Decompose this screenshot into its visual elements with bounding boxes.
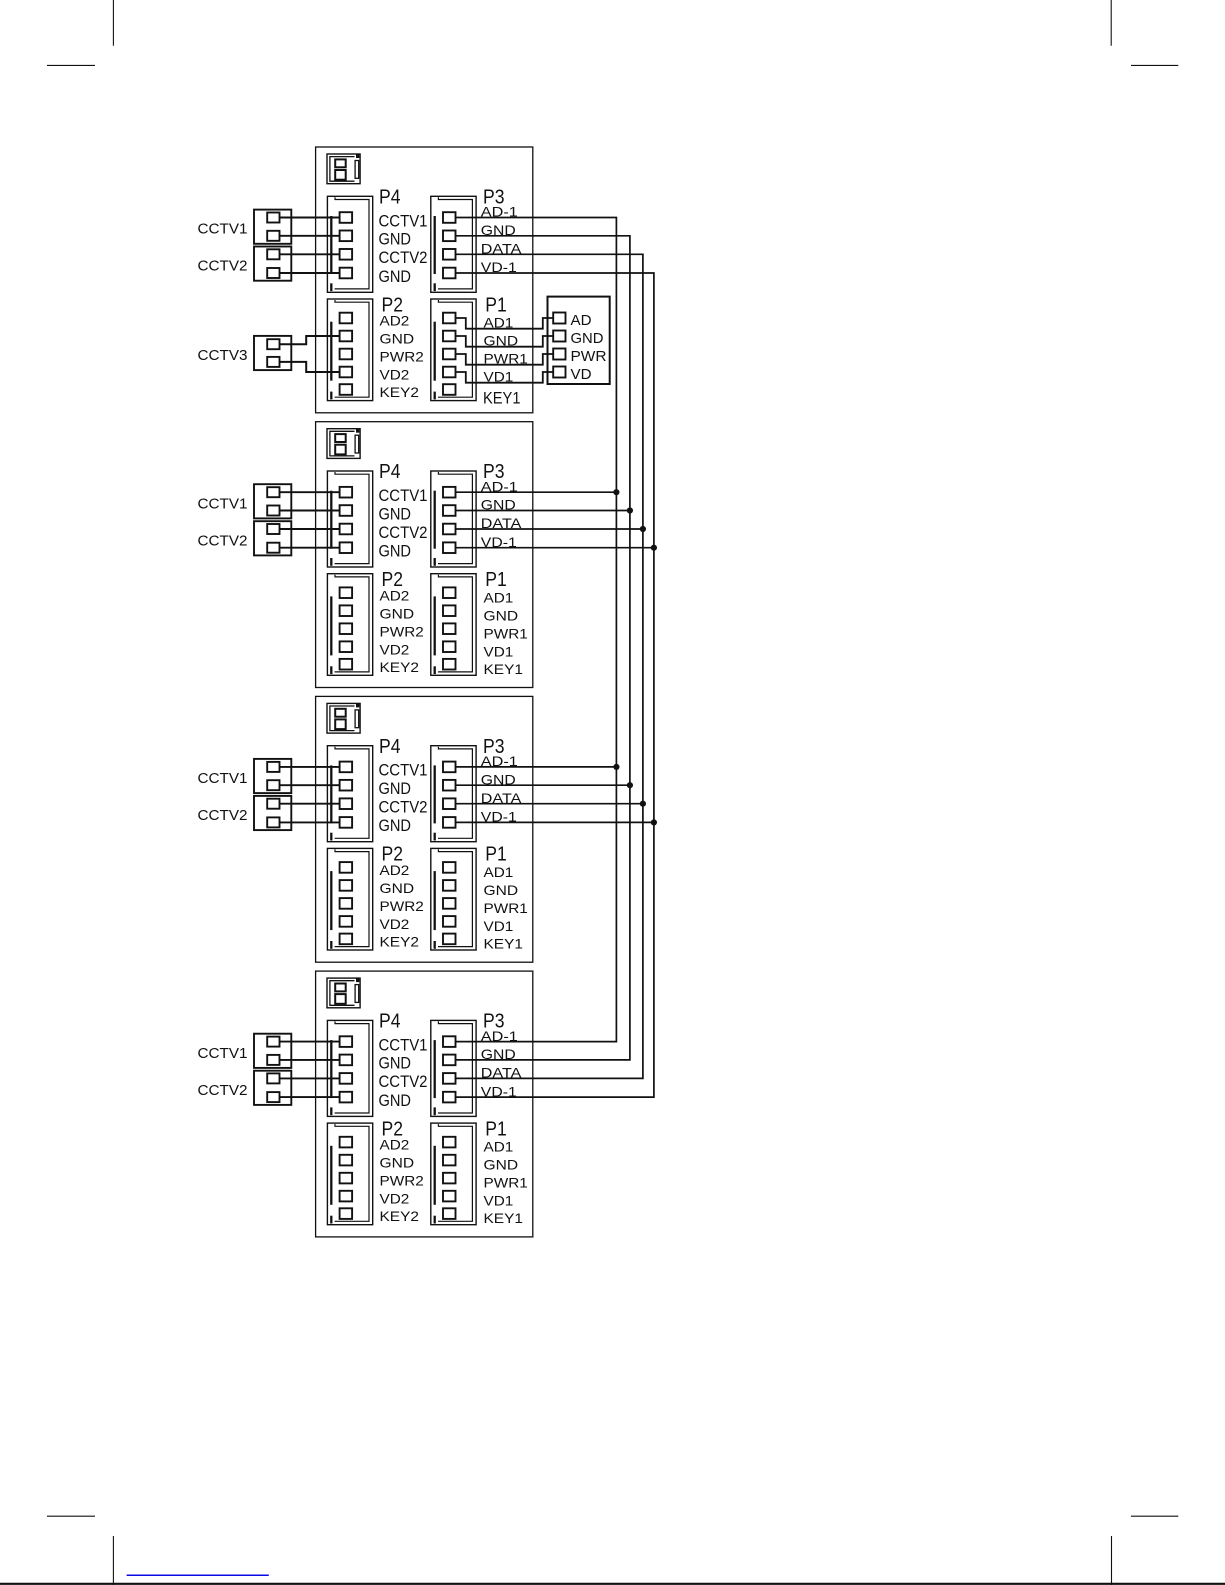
- wire CCTV3 pin 1 to P2.2 GND (unit 1): [280, 336, 340, 344]
- wire P3.4 VD-1 stub (unit 3): [456, 821, 654, 823]
- monitor unit 3 outline: [316, 696, 533, 962]
- pin P3 (unit 3).4: [443, 817, 456, 828]
- wire CCTV1 pin 1 to P4.1 (unit 2): [280, 491, 340, 493]
- svg-text:GND: GND: [571, 330, 604, 347]
- pin P2 (unit 2).5: [340, 659, 353, 670]
- svg-text:P4: P4: [379, 736, 401, 758]
- pin P2 (unit 3).3: [340, 898, 353, 909]
- svg-text:AD: AD: [571, 312, 592, 329]
- svg-text:CCTV1: CCTV1: [379, 486, 428, 505]
- connector P2 (unit 4): [327, 1123, 372, 1225]
- pin P2 (unit 4).4: [340, 1191, 353, 1202]
- pin P4 (unit 1).1: [340, 212, 353, 223]
- svg-text:KEY2: KEY2: [380, 659, 420, 675]
- wire CCTV2 pin 1 to P4.3 (unit 4): [280, 1077, 340, 1079]
- pin P1 (unit 1).3: [443, 349, 456, 360]
- pin P2 (unit 1).2: [340, 331, 353, 342]
- wire P3.4 VD-1 stub (unit 2): [456, 547, 654, 549]
- svg-text:VD: VD: [571, 366, 592, 383]
- svg-text:CCTV1: CCTV1: [198, 496, 248, 512]
- svg-text:GND: GND: [379, 779, 412, 798]
- svg-text:GND: GND: [484, 882, 519, 898]
- pin P2 (unit 2).1: [340, 587, 353, 598]
- wire CCTV1 pin 2 to P4.2 (unit 1): [280, 235, 340, 237]
- svg-text:GND: GND: [379, 1054, 412, 1073]
- svg-text:PWR2: PWR2: [380, 623, 425, 639]
- svg-text:GND: GND: [484, 607, 519, 623]
- pin CCTV1 (unit 3).2: [267, 780, 279, 790]
- svg-text:PWR1: PWR1: [484, 900, 529, 916]
- connector J-AD breakout (unit 1): [548, 297, 610, 384]
- junction DATA (unit 2): [640, 526, 646, 532]
- connector P2 (unit 2): [327, 574, 372, 676]
- wire CCTV2 pin 2 to P4.4 (unit 3): [280, 821, 340, 823]
- svg-text:AD1: AD1: [484, 1139, 514, 1155]
- net AD-1 bus: unit1 P3.1 to unit4 P3.1: [456, 218, 617, 1042]
- pin CCTV3.1: [267, 339, 279, 349]
- wire CCTV1 pin 2 to P4.2 (unit 2): [280, 510, 340, 512]
- pin CCTV1 (unit 3).1: [267, 762, 279, 772]
- pin P4 (unit 4).3: [340, 1073, 353, 1084]
- power connector icon (unit 1): [327, 154, 360, 184]
- pin P1 (unit 1).5: [443, 384, 456, 395]
- wire P1.3 PWR1 to breakout PWR1 (unit 1): [456, 354, 554, 365]
- svg-text:KEY2: KEY2: [380, 934, 420, 950]
- wire CCTV2 pin 2 to P4.4 (unit 1): [280, 272, 340, 274]
- svg-text:GND: GND: [379, 542, 412, 561]
- monitor unit 2 outline: [316, 422, 533, 688]
- pin CCTV2 (unit 2).1: [267, 524, 279, 534]
- pin P4 (unit 3).2: [340, 780, 353, 791]
- wire CCTV2 pin 1 to P4.3 (unit 1): [280, 253, 340, 255]
- pin P4 (unit 2).1: [340, 487, 353, 498]
- svg-text:AD2: AD2: [380, 313, 410, 329]
- connector P1 (unit 3): [431, 848, 476, 950]
- pin CCTV2 (unit 4).2: [267, 1092, 279, 1102]
- pin CCTV1 (unit 2).2: [267, 506, 279, 516]
- pin P1 (unit 1).1: [443, 313, 456, 324]
- monitor unit 4 outline: [316, 971, 533, 1237]
- pin P3 (unit 3).1: [443, 762, 456, 773]
- wire P1.1 AD1 to breakout AD1 (unit 1): [456, 318, 554, 329]
- net DATA bus: unit1 P3.3 to unit4 P3.3: [456, 254, 643, 1078]
- connector P4 (unit 3): [327, 746, 372, 842]
- svg-text:AD1: AD1: [484, 864, 514, 880]
- svg-text:PWR2: PWR2: [380, 349, 425, 365]
- pin P3 (unit 2).3: [443, 524, 456, 535]
- pin CCTV2 (unit 1).1: [267, 249, 279, 259]
- pin P3 (unit 4).3: [443, 1073, 456, 1084]
- pin P2 (unit 1).3: [340, 349, 353, 360]
- net GND bus: unit1 P3.2 to unit4 P3.2: [456, 236, 630, 1060]
- connector P1 (unit 4): [431, 1123, 476, 1225]
- pin CCTV1 (unit 1).2: [267, 231, 279, 241]
- wire P3.1 AD-1 stub (unit 3): [456, 766, 617, 768]
- pin P2 (unit 2).3: [340, 623, 353, 634]
- pin P1 (unit 4).5: [443, 1208, 456, 1219]
- wire CCTV2 pin 2 to P4.4 (unit 2): [280, 547, 340, 549]
- connector CCTV2 (unit 4): [254, 1071, 291, 1105]
- wire CCTV3 pin 2 to P2.4 VD2 (unit 1): [280, 362, 340, 372]
- pin P4 (unit 1).3: [340, 249, 353, 260]
- pin P1 (unit 3).5: [443, 934, 456, 945]
- pin P4 (unit 2).2: [340, 505, 353, 516]
- connector P3 (unit 1): [431, 196, 476, 292]
- pin P1 (unit 1).2: [443, 331, 456, 342]
- pin P2 (unit 4).3: [340, 1173, 353, 1184]
- connector CCTV2 (unit 3): [254, 796, 291, 830]
- pin P4 (unit 3).4: [340, 817, 353, 828]
- svg-text:CCTV2: CCTV2: [379, 798, 428, 817]
- connector P2 (unit 1): [327, 299, 372, 401]
- pin P2 (unit 1).1: [340, 313, 353, 324]
- junction AD-1 (unit 3): [613, 764, 619, 770]
- pin P1 (unit 2).2: [443, 605, 456, 616]
- svg-text:GND: GND: [484, 1157, 519, 1173]
- pin P4 (unit 2).4: [340, 542, 353, 553]
- svg-text:KEY2: KEY2: [380, 384, 420, 400]
- pin CCTV1 (unit 2).1: [267, 487, 279, 497]
- svg-text:AD2: AD2: [380, 587, 410, 603]
- svg-text:VD2: VD2: [380, 1191, 410, 1207]
- wire CCTV1 pin 1 to P4.1 (unit 3): [280, 766, 340, 768]
- svg-text:P1: P1: [485, 569, 507, 591]
- wire CCTV1 pin 1 to P4.1 (unit 1): [280, 217, 340, 219]
- monitor unit 1 outline: [316, 147, 533, 413]
- connector P1 (unit 1): [431, 299, 476, 401]
- net VD-1 bus: unit1 P3.4 to unit4 P3.4: [456, 273, 654, 1097]
- svg-text:CCTV1: CCTV1: [198, 771, 248, 787]
- svg-text:CCTV2: CCTV2: [198, 1083, 248, 1099]
- wire CCTV2 pin 2 to P4.4 (unit 4): [280, 1096, 340, 1098]
- svg-text:CCTV2: CCTV2: [198, 808, 248, 824]
- pin P2 (unit 4).1: [340, 1137, 353, 1148]
- wire CCTV1 pin 2 to P4.2 (unit 3): [280, 784, 340, 786]
- pin P2 (unit 1).4: [340, 367, 353, 378]
- pin P1 (unit 4).3: [443, 1173, 456, 1184]
- pin P2 (unit 4).2: [340, 1155, 353, 1166]
- pin P2 (unit 3).5: [340, 934, 353, 945]
- junction AD-1 (unit 2): [613, 489, 619, 495]
- svg-text:KEY1: KEY1: [484, 1210, 524, 1226]
- junction GND (unit 3): [627, 782, 633, 788]
- svg-text:GND: GND: [380, 331, 415, 347]
- pin P3 (unit 4).2: [443, 1055, 456, 1066]
- pin P1 (unit 3).3: [443, 898, 456, 909]
- junction GND (unit 2): [627, 507, 633, 513]
- svg-text:P1: P1: [485, 844, 507, 866]
- svg-text:PWR2: PWR2: [380, 898, 425, 914]
- svg-text:CCTV3: CCTV3: [198, 348, 248, 364]
- pin J-AD.3: [553, 349, 565, 360]
- pin P4 (unit 4).1: [340, 1036, 353, 1047]
- svg-text:GND: GND: [379, 267, 412, 286]
- pin J-AD.1: [553, 313, 565, 324]
- svg-text:CCTV2: CCTV2: [379, 1072, 428, 1091]
- power connector icon (unit 4): [327, 978, 360, 1008]
- pin P4 (unit 4).4: [340, 1092, 353, 1103]
- pin CCTV2 (unit 1).2: [267, 268, 279, 278]
- wire P3.2 GND stub (unit 3): [456, 784, 630, 786]
- svg-text:CCTV1: CCTV1: [198, 1046, 248, 1062]
- svg-text:GND: GND: [379, 816, 412, 835]
- pin P1 (unit 4).1: [443, 1137, 456, 1148]
- pin P3 (unit 4).1: [443, 1036, 456, 1047]
- svg-text:GND: GND: [379, 504, 412, 523]
- pin P2 (unit 2).2: [340, 605, 353, 616]
- pin P1 (unit 4).4: [443, 1191, 456, 1202]
- pin P1 (unit 3).2: [443, 880, 456, 891]
- svg-text:KEY1: KEY1: [484, 936, 524, 952]
- connector P4 (unit 2): [327, 471, 372, 567]
- connector P3 (unit 4): [431, 1020, 476, 1116]
- svg-text:AD2: AD2: [380, 1137, 410, 1153]
- pin CCTV1 (unit 4).1: [267, 1037, 279, 1047]
- connector P4 (unit 1): [327, 196, 372, 292]
- svg-text:CCTV1: CCTV1: [379, 1035, 428, 1054]
- pin J-AD.4: [553, 367, 565, 378]
- connector CCTV1 (unit 3): [254, 759, 291, 793]
- svg-text:GND: GND: [380, 605, 415, 621]
- connector P4 (unit 4): [327, 1020, 372, 1116]
- wire P3.1 AD-1 stub (unit 2): [456, 491, 617, 493]
- connector P2 (unit 3): [327, 848, 372, 950]
- svg-text:PWR2: PWR2: [380, 1173, 425, 1189]
- svg-text:CCTV2: CCTV2: [198, 259, 248, 275]
- svg-text:CCTV2: CCTV2: [379, 523, 428, 542]
- pin P1 (unit 4).2: [443, 1155, 456, 1166]
- connector P3 (unit 3): [431, 746, 476, 842]
- power connector icon (unit 3): [327, 703, 360, 733]
- pin P1 (unit 3).1: [443, 862, 456, 873]
- pin P1 (unit 3).4: [443, 916, 456, 927]
- svg-text:KEY2: KEY2: [380, 1208, 420, 1224]
- connector CCTV1 (unit 4): [254, 1034, 291, 1068]
- svg-text:P4: P4: [379, 461, 401, 483]
- svg-text:GND: GND: [380, 880, 415, 896]
- pin CCTV1 (unit 1).1: [267, 213, 279, 223]
- connector CCTV3: [254, 336, 291, 370]
- svg-text:PWR1: PWR1: [484, 625, 529, 641]
- pin P4 (unit 3).1: [340, 762, 353, 773]
- wire CCTV1 pin 2 to P4.2 (unit 4): [280, 1059, 340, 1061]
- svg-text:VD2: VD2: [380, 367, 410, 383]
- svg-text:VD2: VD2: [380, 916, 410, 932]
- wire P3.2 GND stub (unit 2): [456, 510, 630, 512]
- wire P3.3 DATA stub (unit 3): [456, 803, 643, 805]
- svg-text:P4: P4: [379, 1011, 401, 1033]
- svg-text:P4: P4: [379, 187, 401, 209]
- pin P1 (unit 2).4: [443, 641, 456, 652]
- pin P2 (unit 1).5: [340, 384, 353, 395]
- pin P3 (unit 1).3: [443, 249, 456, 260]
- pin CCTV2 (unit 3).2: [267, 817, 279, 827]
- svg-text:VD1: VD1: [484, 1193, 514, 1209]
- svg-text:P1: P1: [485, 1118, 507, 1140]
- svg-text:GND: GND: [379, 230, 412, 249]
- pin P4 (unit 3).3: [340, 798, 353, 809]
- connector CCTV2 (unit 2): [254, 521, 291, 555]
- pin P1 (unit 2).3: [443, 623, 456, 634]
- connector CCTV1 (unit 1): [254, 210, 291, 244]
- pin CCTV2 (unit 4).1: [267, 1073, 279, 1083]
- pin P2 (unit 3).4: [340, 916, 353, 927]
- pin P3 (unit 4).4: [443, 1092, 456, 1103]
- svg-text:AD2: AD2: [380, 862, 410, 878]
- pin P4 (unit 2).3: [340, 524, 353, 535]
- wire P3.3 DATA stub (unit 2): [456, 528, 643, 530]
- pin P1 (unit 2).1: [443, 587, 456, 598]
- pin P1 (unit 2).5: [443, 659, 456, 670]
- connector P3 (unit 2): [431, 471, 476, 567]
- svg-text:KEY1: KEY1: [484, 661, 524, 677]
- svg-text:GND: GND: [380, 1155, 415, 1171]
- pin P3 (unit 1).4: [443, 268, 456, 279]
- svg-text:CCTV1: CCTV1: [198, 222, 248, 238]
- junction VD-1 (unit 2): [651, 545, 657, 551]
- pin J-AD.2: [553, 331, 565, 342]
- connector CCTV1 (unit 2): [254, 484, 291, 518]
- pin P3 (unit 1).2: [443, 231, 456, 242]
- svg-text:VD2: VD2: [380, 641, 410, 657]
- pin P3 (unit 2).4: [443, 542, 456, 553]
- wire CCTV2 pin 1 to P4.3 (unit 3): [280, 803, 340, 805]
- wire CCTV2 pin 1 to P4.3 (unit 2): [280, 528, 340, 530]
- pin CCTV3.2: [267, 357, 279, 367]
- svg-text:CCTV2: CCTV2: [379, 248, 428, 267]
- svg-text:P1: P1: [485, 294, 507, 316]
- junction VD-1 (unit 3): [651, 819, 657, 825]
- pin CCTV2 (unit 2).2: [267, 543, 279, 553]
- pin P3 (unit 3).3: [443, 798, 456, 809]
- wire P1.2 GND to breakout GND (unit 1): [456, 336, 554, 347]
- svg-text:VD1: VD1: [484, 918, 514, 934]
- connector CCTV2 (unit 1): [254, 247, 291, 281]
- svg-text:AD1: AD1: [484, 589, 514, 605]
- pin P3 (unit 2).2: [443, 505, 456, 516]
- svg-text:CCTV1: CCTV1: [379, 761, 428, 780]
- pin P2 (unit 4).5: [340, 1208, 353, 1219]
- svg-text:KEY1: KEY1: [483, 388, 521, 407]
- svg-text:PWR1: PWR1: [484, 1175, 529, 1191]
- pin CCTV1 (unit 4).2: [267, 1055, 279, 1065]
- svg-text:CCTV1: CCTV1: [379, 211, 428, 230]
- junction DATA (unit 3): [640, 801, 646, 807]
- pin P4 (unit 1).2: [340, 231, 353, 242]
- pin P3 (unit 3).2: [443, 780, 456, 791]
- pin P3 (unit 2).1: [443, 487, 456, 498]
- svg-text:VD1: VD1: [484, 643, 514, 659]
- wire CCTV1 pin 1 to P4.1 (unit 4): [280, 1041, 340, 1043]
- pin P2 (unit 3).2: [340, 880, 353, 891]
- pin P1 (unit 1).4: [443, 367, 456, 378]
- wire P1.4 VD1 to breakout VD1 (unit 1): [456, 372, 554, 383]
- svg-text:PWR: PWR: [571, 348, 607, 365]
- pin P2 (unit 3).1: [340, 862, 353, 873]
- pin P4 (unit 1).4: [340, 268, 353, 279]
- pin P4 (unit 4).2: [340, 1055, 353, 1066]
- connector P1 (unit 2): [431, 574, 476, 676]
- svg-text:CCTV2: CCTV2: [198, 533, 248, 549]
- pin P3 (unit 1).1: [443, 212, 456, 223]
- pin P2 (unit 2).4: [340, 641, 353, 652]
- svg-text:GND: GND: [379, 1091, 412, 1110]
- power connector icon (unit 2): [327, 429, 360, 459]
- pin CCTV2 (unit 3).1: [267, 799, 279, 809]
